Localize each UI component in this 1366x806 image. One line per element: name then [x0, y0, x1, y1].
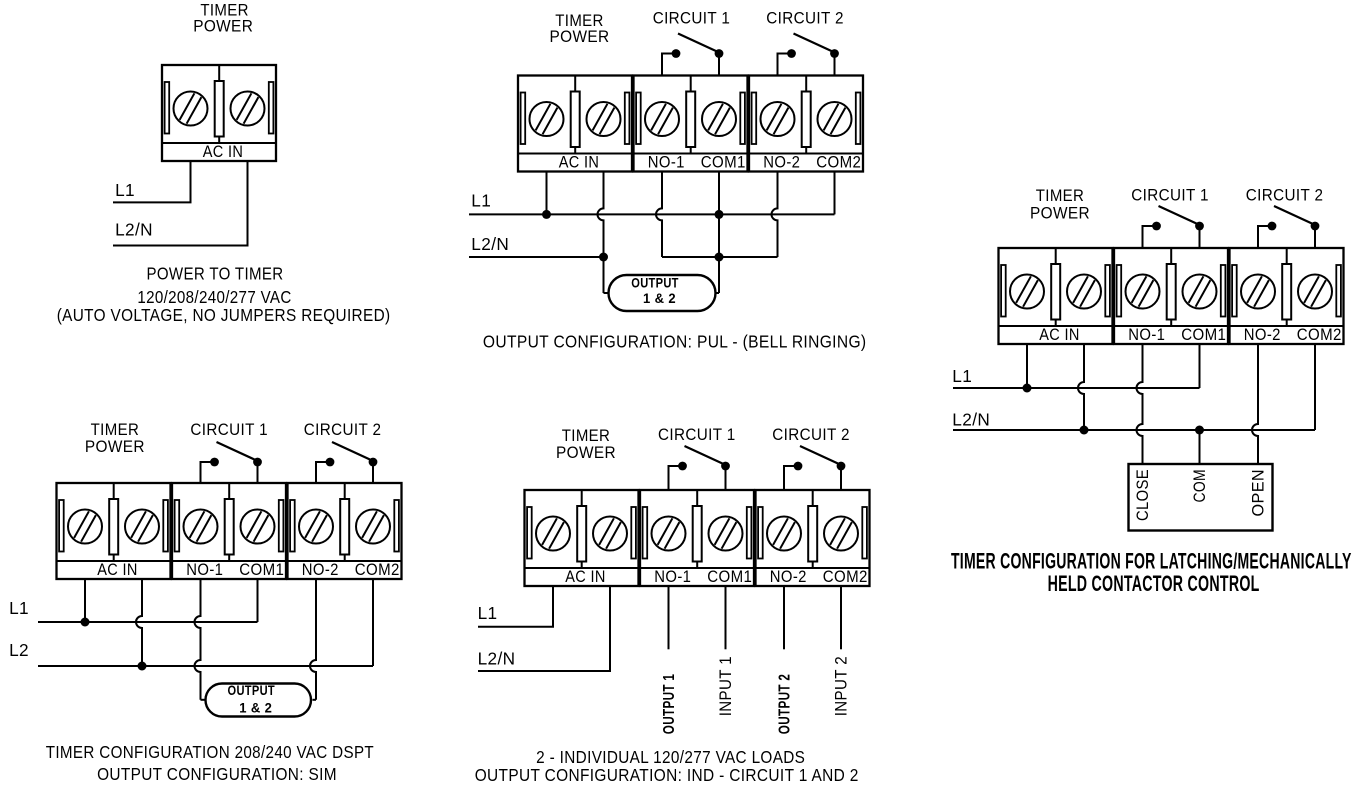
svg-text:OPEN: OPEN [1250, 469, 1268, 516]
svg-text:COM2: COM2 [823, 568, 868, 586]
svg-text:AC IN: AC IN [565, 568, 606, 586]
svg-text:CIRCUIT 2: CIRCUIT 2 [1246, 187, 1324, 205]
svg-text:L1: L1 [115, 180, 135, 200]
svg-text:OUTPUT: OUTPUT [631, 276, 679, 291]
svg-text:COM1: COM1 [701, 154, 746, 172]
svg-text:(AUTO VOLTAGE, NO JUMPERS REQU: (AUTO VOLTAGE, NO JUMPERS REQUIRED) [57, 305, 391, 325]
svg-text:NO-1: NO-1 [1128, 326, 1165, 344]
svg-text:TIMER CONFIGURATION FOR LATCHI: TIMER CONFIGURATION FOR LATCHING/MECHANI… [951, 548, 1352, 573]
svg-text:CIRCUIT 2: CIRCUIT 2 [772, 426, 850, 444]
svg-text:OUTPUT CONFIGURATION: SIM: OUTPUT CONFIGURATION: SIM [97, 764, 337, 784]
svg-text:NO-2: NO-2 [302, 561, 339, 579]
svg-text:L1: L1 [471, 191, 491, 211]
svg-text:OUTPUT 2: OUTPUT 2 [777, 674, 794, 734]
svg-text:OUTPUT CONFIGURATION: IND - CI: OUTPUT CONFIGURATION: IND - CIRCUIT 1 AN… [475, 765, 859, 785]
svg-text:CIRCUIT 1: CIRCUIT 1 [658, 426, 736, 444]
svg-text:CLOSE: CLOSE [1134, 469, 1152, 521]
svg-text:TIMER: TIMER [562, 427, 611, 445]
svg-text:NO-2: NO-2 [763, 154, 800, 172]
svg-text:COM1: COM1 [707, 568, 752, 586]
svg-text:AC IN: AC IN [559, 154, 600, 172]
svg-text:POWER: POWER [1030, 205, 1090, 223]
svg-text:OUTPUT 1: OUTPUT 1 [661, 674, 678, 734]
svg-text:NO-1: NO-1 [654, 568, 691, 586]
svg-text:NO-2: NO-2 [770, 568, 807, 586]
svg-text:AC IN: AC IN [97, 561, 138, 579]
svg-text:L2/N: L2/N [471, 234, 509, 254]
svg-text:TIMER: TIMER [1036, 187, 1085, 205]
svg-text:COM2: COM2 [355, 561, 400, 579]
svg-text:POWER: POWER [550, 28, 610, 46]
svg-text:L2/N: L2/N [478, 649, 516, 669]
svg-text:POWER: POWER [85, 438, 145, 456]
svg-text:AC IN: AC IN [1039, 326, 1080, 344]
svg-text:L2/N: L2/N [115, 220, 153, 240]
svg-text:1 & 2: 1 & 2 [643, 291, 676, 306]
svg-text:2 - INDIVIDUAL 120/277 VAC LOA: 2 - INDIVIDUAL 120/277 VAC LOADS [536, 747, 805, 767]
svg-text:L2/N: L2/N [952, 410, 990, 430]
svg-text:NO-1: NO-1 [186, 561, 223, 579]
svg-text:NO-2: NO-2 [1244, 326, 1281, 344]
svg-text:TIMER: TIMER [91, 421, 140, 439]
svg-text:OUTPUT: OUTPUT [228, 683, 276, 698]
svg-text:HELD CONTACTOR CONTROL: HELD CONTACTOR CONTROL [1048, 571, 1260, 596]
svg-text:CIRCUIT 2: CIRCUIT 2 [766, 10, 844, 28]
svg-text:INPUT 2: INPUT 2 [833, 656, 851, 716]
svg-text:COM1: COM1 [239, 561, 284, 579]
svg-text:L1: L1 [9, 598, 29, 618]
svg-text:INPUT 1: INPUT 1 [717, 656, 735, 716]
svg-text:CIRCUIT 1: CIRCUIT 1 [1131, 187, 1209, 205]
svg-text:NO-1: NO-1 [648, 154, 685, 172]
svg-text:1 & 2: 1 & 2 [239, 701, 272, 716]
svg-text:L2: L2 [9, 640, 29, 660]
svg-text:L1: L1 [478, 603, 498, 623]
svg-text:CIRCUIT 2: CIRCUIT 2 [304, 421, 382, 439]
svg-text:POWER: POWER [193, 18, 253, 36]
svg-text:COM2: COM2 [816, 154, 861, 172]
svg-text:COM: COM [1191, 469, 1209, 503]
svg-text:TIMER CONFIGURATION 208/240 VA: TIMER CONFIGURATION 208/240 VAC DSPT [46, 742, 374, 762]
svg-text:CIRCUIT 1: CIRCUIT 1 [190, 421, 268, 439]
svg-text:COM1: COM1 [1181, 326, 1226, 344]
svg-text:AC IN: AC IN [203, 143, 244, 161]
svg-text:POWER TO TIMER: POWER TO TIMER [146, 263, 283, 283]
svg-text:L1: L1 [952, 366, 972, 386]
svg-text:COM2: COM2 [1297, 326, 1342, 344]
svg-text:OUTPUT CONFIGURATION: PUL - (B: OUTPUT CONFIGURATION: PUL - (BELL RINGIN… [483, 332, 867, 352]
svg-text:CIRCUIT 1: CIRCUIT 1 [653, 10, 731, 28]
svg-text:POWER: POWER [556, 444, 616, 462]
